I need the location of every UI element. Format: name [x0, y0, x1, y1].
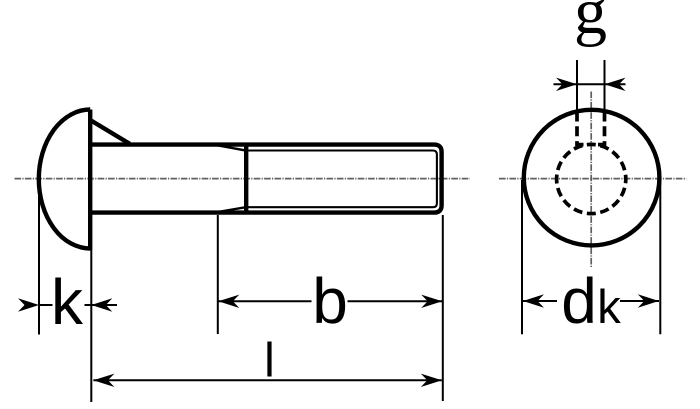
- svg-text:l: l: [264, 334, 275, 387]
- svg-text:b: b: [312, 265, 348, 337]
- svg-text:k: k: [51, 266, 84, 338]
- svg-text:d: d: [561, 265, 597, 337]
- svg-text:k: k: [597, 280, 621, 333]
- svg-text:g: g: [574, 0, 607, 48]
